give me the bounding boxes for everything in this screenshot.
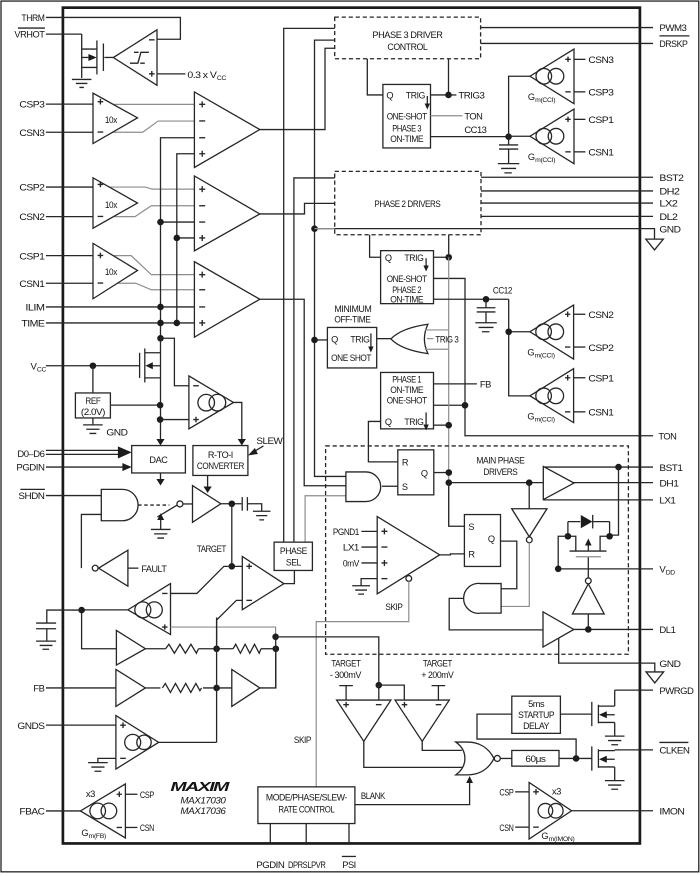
- junction VDD: [555, 566, 562, 573]
- wire THRM to comparator inverting input: [46, 17, 181, 39]
- node TRIG1: [445, 422, 452, 429]
- pin SHDN (active low): [18, 489, 45, 502]
- junction target node: [228, 500, 235, 507]
- wire CSP1: [46, 255, 93, 257]
- pin CLKEN (active low): [659, 742, 690, 756]
- box MAIN PHASE DRIVERS (dashed): [326, 446, 629, 654]
- comparator CMP4 target/feedback: [242, 556, 284, 609]
- pin LX2: [659, 199, 677, 210]
- svg-text:DAC: DAC: [149, 455, 168, 465]
- IC boundary box: [63, 8, 640, 844]
- inverter U9 FAULT (pointing left): [92, 550, 128, 586]
- svg-text:CSP1: CSP1: [19, 251, 44, 262]
- svg-text:m(CCI): m(CCI): [535, 416, 555, 423]
- svg-text:TRIG3: TRIG3: [458, 91, 484, 102]
- wire R-TO-I output arrow to buffer: [207, 475, 209, 488]
- comparator CMP7 OVP (TARGET +200mV): [395, 700, 449, 741]
- svg-text:TON: TON: [464, 112, 483, 123]
- junction DH1 at inverter tap: [526, 479, 533, 486]
- junction Q3 right: [606, 533, 613, 540]
- node TRIG2: [445, 254, 452, 261]
- svg-text:OFF-TIME: OFF-TIME: [334, 315, 370, 325]
- wire phase usage (gray) from AND input to phase selector: [305, 496, 346, 542]
- op-amp B3 buffer: [232, 669, 260, 706]
- bus arrowhead into DAC: [118, 446, 132, 458]
- one-shot U7 PHASE 1 ON-TIME: [381, 372, 434, 430]
- node SLEW input: [248, 436, 284, 456]
- wire PWM3 from phase3 driver control: [481, 27, 653, 29]
- svg-text:ON-TIME: ON-TIME: [390, 134, 423, 144]
- wire FB sense to right comparator +: [379, 685, 405, 700]
- pin DL2: [659, 212, 677, 223]
- wire ILIM to comparator3 and bus A: [46, 306, 195, 308]
- node BLANK: [355, 776, 473, 805]
- wire VRHOT to pMOS drain: [46, 33, 82, 35]
- wire target node diagonal to gm - input: [171, 566, 232, 593]
- comparator CMP1 phase 1 on-time trigger: [194, 262, 259, 338]
- wire comp node down to buffer B1: [82, 610, 117, 649]
- junction 60us out: [573, 755, 580, 762]
- svg-text:Q: Q: [385, 253, 392, 263]
- reference T-bar TARGET -300mV: [330, 659, 362, 700]
- svg-text:SKIP: SKIP: [385, 602, 402, 613]
- node CSN (fbac): [125, 823, 154, 834]
- wire SHDN to AND gate: [46, 495, 101, 497]
- node FAULT: [128, 564, 167, 575]
- wire CSN2 passthrough jog to comparator2 -: [93, 206, 194, 217]
- wire one-shot2 Q to phase2 drivers box: [370, 235, 381, 258]
- wire default-position arrow from ground: [151, 513, 171, 538]
- node CSP (imon): [499, 788, 529, 799]
- svg-text:GNDS: GNDS: [17, 721, 44, 732]
- comparator CMP2 phase 2 on-time trigger: [194, 176, 259, 251]
- pin GND (main): [659, 659, 681, 670]
- svg-text:x3: x3: [86, 789, 95, 800]
- svg-text:CLKEN: CLKEN: [659, 746, 690, 757]
- svg-text:10x: 10x: [105, 267, 118, 277]
- one-shot U5 minimum off-time: [327, 327, 376, 368]
- svg-text:DL1: DL1: [659, 625, 675, 636]
- transistor Q2 internal switch (VCC gate): [140, 348, 161, 382]
- wire DRSKP from phase3 driver control: [481, 42, 653, 44]
- wire inverter bubble to and2 input2: [501, 543, 529, 607]
- svg-text:CSN1: CSN1: [588, 408, 613, 419]
- ground on GM3 - input: [88, 758, 116, 771]
- transistor Q5 CLKEN open drain: [592, 746, 625, 789]
- node CSP2 input: [574, 343, 614, 354]
- junction REF node: [157, 402, 164, 409]
- svg-text:CSN3: CSN3: [588, 55, 613, 66]
- wire LX1: [543, 499, 653, 501]
- svg-text:CSN2: CSN2: [19, 212, 44, 223]
- wire GNDS vertical J1-J2: [216, 617, 218, 742]
- svg-text:CSP2: CSP2: [19, 183, 44, 194]
- op-amp U1 thermal comparator with hysteresis: [113, 30, 157, 86]
- svg-text:PSI: PSI: [342, 860, 356, 871]
- svg-text:TARGET: TARGET: [423, 659, 453, 669]
- capacitor CC13 to ground: [498, 133, 519, 173]
- svg-text:CSP1: CSP1: [588, 115, 613, 126]
- svg-text:LX1: LX1: [659, 496, 675, 507]
- junction Q trigger: [446, 469, 453, 476]
- capacitor CC12 to ground: [475, 296, 497, 332]
- svg-text:CC: CC: [217, 75, 227, 82]
- svg-text:10x: 10x: [105, 200, 118, 210]
- wire TRIG2 stub: [433, 235, 448, 258]
- wire CLKEN: [615, 749, 653, 751]
- svg-text:PWRGD: PWRGD: [659, 686, 694, 697]
- pin GND (phase2): [659, 224, 681, 235]
- converter R-TO-I box: [193, 446, 248, 476]
- svg-text:CSN: CSN: [499, 823, 513, 834]
- wire one-shot3 Q to control box: [367, 59, 383, 95]
- svg-text:CSN1: CSN1: [588, 148, 613, 159]
- wire TIME/ILIM bus down through switch to DAC: [160, 338, 162, 441]
- op-amp GM4 Gm(IMON) x3: [529, 782, 574, 843]
- wire SKIP from bubble down and left: [316, 581, 409, 787]
- svg-text:FBAC: FBAC: [19, 807, 45, 818]
- svg-text:LX2: LX2: [659, 199, 677, 210]
- junction min-off Q: [311, 337, 318, 344]
- svg-text:SLEW: SLEW: [256, 436, 283, 447]
- svg-text:Q: Q: [385, 417, 392, 427]
- node 0mV input: [343, 559, 377, 570]
- driver AMP DH1 high side: [543, 466, 574, 499]
- svg-text:TRIG: TRIG: [404, 253, 423, 263]
- wire B2 output to resistor R3: [145, 687, 160, 689]
- svg-text:BLANK: BLANK: [361, 791, 386, 802]
- bubble skip output on CMP5: [406, 576, 412, 582]
- svg-text:ONE SHOT: ONE SHOT: [331, 353, 372, 363]
- wire IMON: [572, 810, 653, 812]
- wire CMP5 output to FF2 R: [440, 554, 465, 555]
- node CSP (fbac): [125, 790, 154, 801]
- svg-text:MAXIM: MAXIM: [170, 779, 231, 794]
- svg-text:PHASE 3: PHASE 3: [392, 124, 421, 134]
- pin TIME: [21, 319, 44, 330]
- svg-text:Q: Q: [386, 90, 393, 100]
- pin CSP3: [19, 100, 44, 111]
- wire node N vertical: [275, 637, 277, 688]
- svg-text:MINIMUM: MINIMUM: [334, 304, 371, 314]
- wire VCC down to REF box: [92, 366, 94, 393]
- wire BST1: [543, 466, 653, 468]
- svg-text:DH1: DH1: [659, 479, 678, 490]
- wire R1 to junction: [199, 648, 234, 650]
- svg-text:TRIG: TRIG: [350, 335, 369, 345]
- ground triangle GND (main): [646, 672, 664, 683]
- comparator CMP3 phase 3 on-time trigger: [194, 92, 259, 168]
- node CSN2 input: [574, 310, 614, 321]
- svg-text:G: G: [81, 828, 88, 838]
- wire and2 output to DL1 driver: [449, 598, 543, 630]
- svg-text:SKIP: SKIP: [294, 735, 311, 746]
- svg-text:m(CCI): m(CCI): [535, 157, 555, 164]
- junction node N upper: [272, 634, 279, 641]
- wire FF2 Q wrap to and2 input1: [501, 541, 517, 589]
- svg-text:RATE CONTROL: RATE CONTROL: [278, 805, 334, 815]
- pin CSN2: [19, 212, 44, 223]
- wire PGDIN into DAC: [46, 466, 124, 468]
- svg-text:m(CCI): m(CCI): [535, 353, 555, 360]
- pin CSN3: [19, 128, 44, 139]
- wire CSN1: [46, 282, 93, 284]
- svg-text:CC13: CC13: [464, 125, 486, 136]
- wire VDD row: [558, 568, 653, 570]
- svg-text:PHASE 2 DRIVERS: PHASE 2 DRIVERS: [374, 199, 440, 209]
- svg-text:R: R: [402, 457, 409, 467]
- svg-text:m(FB): m(FB): [89, 833, 106, 840]
- svg-text:G: G: [528, 92, 535, 102]
- pin PGDIN (left): [16, 463, 45, 474]
- svg-text:S: S: [402, 482, 408, 492]
- pin VCC: [30, 361, 46, 373]
- svg-text:GND: GND: [659, 224, 681, 235]
- node CSP3 input: [574, 88, 614, 99]
- wire R3 to J2: [203, 687, 232, 689]
- svg-text:CSP: CSP: [499, 788, 513, 799]
- svg-text:PWM3: PWM3: [659, 23, 686, 34]
- junction DL1 row: [585, 626, 592, 633]
- transistor Q3 bootstrap pMOS with body diode: [568, 515, 610, 557]
- wire buffer output to target node: [221, 503, 242, 505]
- wire FAULT inverter output up to AND input: [81, 514, 101, 568]
- svg-text:PGND1: PGND1: [333, 527, 359, 538]
- svg-text:G: G: [541, 831, 548, 841]
- node TRIG3: [445, 91, 484, 102]
- svg-text:MAX17030: MAX17030: [180, 795, 226, 805]
- pin ILIM: [25, 303, 45, 314]
- svg-text:TARGET: TARGET: [197, 544, 227, 554]
- resistor R1: [166, 644, 199, 653]
- svg-text:CC12: CC12: [493, 286, 512, 297]
- svg-text:- 300mV: - 300mV: [330, 670, 362, 680]
- node CC13: [431, 125, 509, 137]
- wire AND output dashed to switch: [138, 504, 169, 506]
- svg-text:PHASE 2: PHASE 2: [392, 285, 421, 295]
- junction Q DH1 row: [446, 479, 453, 486]
- ground GND under REF: [83, 418, 128, 439]
- inverter U13 zx detect (pointing up): [572, 557, 604, 630]
- resistor R2: [233, 644, 261, 653]
- wire comparator CMP3 output to phase3 driver control: [260, 48, 335, 129]
- wire REF output to bus node: [110, 404, 160, 406]
- op-amp Gm(CCI) phase3 upper (CSN3/CSP3): [528, 49, 574, 104]
- pin CSP1: [19, 251, 44, 262]
- svg-text:G: G: [527, 411, 534, 421]
- node CSN1 input: [574, 148, 614, 159]
- wire OR bottom input to trigger chain: [425, 348, 449, 350]
- wire FF2 S feed from trigger chain: [449, 483, 465, 527]
- junction FB sense at target comparators: [376, 682, 383, 689]
- pin PSI (active low): [342, 856, 356, 871]
- svg-text:PHASE: PHASE: [280, 546, 307, 556]
- wire comparator CMP2 output to phase2 drivers: [260, 203, 335, 214]
- svg-text:BST1: BST1: [659, 463, 682, 474]
- wire GM2 + input to divider node: [171, 627, 276, 637]
- driver AMP DL1 low side: [543, 612, 574, 647]
- svg-text:TRIG: TRIG: [406, 90, 425, 100]
- wire DL2: [481, 215, 653, 217]
- svg-text:DRIVERS: DRIVERS: [483, 467, 517, 477]
- svg-text:DPRSLPVR: DPRSLPVR: [288, 860, 326, 871]
- op-amp GM5 Gm(FB) x3 (pointing left): [80, 784, 125, 840]
- svg-text:0.3 x V: 0.3 x V: [187, 70, 217, 81]
- wire DH2: [481, 190, 653, 192]
- junction VCC at REF: [90, 362, 97, 369]
- wire comparator CMP1 output down to main phase AND gate: [260, 299, 346, 486]
- wire TRIG1 stub: [434, 424, 449, 426]
- wire CSP2: [46, 186, 93, 188]
- wire GM3 output to J-vertical: [159, 741, 217, 743]
- node PGND1 input: [333, 527, 377, 538]
- svg-text:VRHOT: VRHOT: [14, 30, 45, 41]
- op-amp Gm(CCI) phase2 upper (CSN2/CSP2): [527, 305, 573, 360]
- svg-text:ONE-SHOT: ONE-SHOT: [387, 112, 428, 122]
- wire CSN3 passthrough jog to comparator1 -: [93, 121, 194, 132]
- wire AND output to FF1 S: [382, 485, 398, 487]
- svg-text:S: S: [468, 522, 474, 532]
- pin THRM: [21, 13, 44, 24]
- wire CSN2: [46, 216, 93, 218]
- op-amp GM1 slew current source: [189, 376, 234, 429]
- pin IMON: [659, 806, 685, 817]
- svg-text:DH2: DH2: [659, 187, 679, 198]
- reference T-bar TARGET +200mV: [421, 659, 454, 700]
- wire R2 to node N: [261, 648, 276, 650]
- wire DAC output arrow to switch: [160, 473, 162, 480]
- svg-text:R-TO-I: R-TO-I: [208, 450, 233, 460]
- svg-text:REF: REF: [85, 396, 101, 406]
- node CSP1 input (phase2 pair): [574, 374, 614, 385]
- wire CMP4 output to PHASE SEL: [284, 570, 295, 583]
- wire PGDIN bottom: [269, 824, 271, 844]
- pin DH2: [659, 187, 679, 198]
- svg-text:LX1: LX1: [343, 543, 359, 554]
- junction comp node: [78, 607, 85, 614]
- op-amp B1 buffer: [116, 630, 145, 665]
- wire 60us output to CLKEN gate: [559, 757, 592, 759]
- wire phase1 Q to main flip-flop R: [368, 421, 397, 461]
- svg-text:SEL: SEL: [286, 558, 301, 568]
- comparator CMP6 UVP (TARGET -300mV): [337, 700, 391, 741]
- pin DRSKP (active low): [659, 36, 689, 50]
- inverter U11 zero-cross sense (pointing down): [512, 483, 547, 543]
- flip-flop FF1 R/S main: [398, 450, 434, 495]
- wire CSN3: [46, 131, 93, 133]
- wire DRSKP distribution vertical: [315, 40, 346, 476]
- wire D0-D6 bus double line: [46, 450, 119, 454]
- op-amp Gm(CCI) phase2 lower (CSP1/CSN1): [527, 369, 573, 424]
- capacitor target filter: [242, 497, 270, 520]
- svg-text:G: G: [527, 348, 534, 358]
- wire GM2 output to external comp pin node: [82, 609, 128, 611]
- svg-text:Q: Q: [421, 469, 428, 479]
- svg-text:R: R: [468, 550, 475, 560]
- op-amp CSA3 10x current sense amp phase 3: [93, 93, 138, 143]
- junction DRSKP/GND row: [311, 225, 318, 232]
- node CSN3 input: [574, 55, 614, 66]
- switch SW1 target enable: [157, 501, 183, 517]
- svg-text:CSN1: CSN1: [19, 279, 44, 290]
- wire node N to target comparators: [276, 637, 379, 685]
- op-amp Gm(CCI) phase3 lower (CSP1/CSN1): [528, 109, 574, 164]
- svg-text:D0–D6: D0–D6: [17, 449, 44, 460]
- junction Gm phase2 upper apex: [505, 328, 512, 335]
- svg-text:ILIM: ILIM: [25, 303, 45, 314]
- box PHASE 2 DRIVERS (dashed): [335, 171, 481, 234]
- svg-text:CC: CC: [37, 367, 47, 374]
- svg-text:THRM: THRM: [21, 13, 44, 24]
- svg-text:m(CCI): m(CCI): [535, 97, 555, 104]
- op-amp CSA2 10x current sense amp phase 2: [93, 178, 138, 228]
- transistor Q1 VRHOT open-drain pMOS: [82, 34, 114, 78]
- and-gate U10 main on-time set: [346, 472, 381, 502]
- node CSP1 input: [574, 115, 614, 126]
- wire FB sense stub into left comparator -: [378, 685, 380, 700]
- svg-text:DRSKP: DRSKP: [659, 39, 687, 50]
- pin VDD: [659, 565, 675, 577]
- wire TRIG3 to control box: [431, 59, 449, 95]
- svg-text:PHASE 3 DRIVER: PHASE 3 DRIVER: [372, 30, 443, 40]
- ground under Q1: [72, 79, 92, 87]
- pin CSP2: [19, 183, 44, 194]
- svg-text:CSN2: CSN2: [588, 310, 613, 321]
- box PHASE 3 DRIVER CONTROL (dashed): [335, 17, 481, 59]
- junction divider J1: [213, 645, 220, 652]
- comparator CMP5 current balance PWM: [377, 517, 440, 594]
- wire GND row gray segment into phase2 box: [315, 228, 335, 230]
- wire bus elbow to gm - input: [161, 338, 189, 386]
- wire OR top input to trigger chain: [425, 329, 449, 331]
- wire CSP1 passthrough jog to comparator3 +: [93, 256, 194, 275]
- svg-text:DELAY: DELAY: [523, 721, 549, 731]
- svg-text:FB: FB: [33, 684, 44, 695]
- pin D0-D6: [17, 449, 44, 460]
- wire PSI: [348, 824, 350, 844]
- svg-text:DD: DD: [666, 570, 676, 577]
- and-gate U8 shdn enable: [101, 489, 138, 520]
- ground on CMP5 4th input: [352, 579, 377, 595]
- wire 5ms output to PWRGD gate: [560, 713, 591, 715]
- pin LX1: [659, 496, 675, 507]
- delay box 60us: [512, 750, 559, 766]
- svg-text:GND: GND: [106, 427, 128, 438]
- label MAIN PHASE DRIVERS: [476, 455, 524, 477]
- wire CSN1 passthrough jog to comparator3 -: [93, 283, 194, 290]
- wire target node down to target comparator +: [232, 504, 243, 567]
- transistor Q4 PWRGD open drain: [592, 690, 625, 745]
- junction gm + node: [157, 416, 164, 423]
- op-amp GM3 GNDS sense: [116, 716, 159, 770]
- wire BST1 from driver top corner (drawn under pin wire): [610, 467, 619, 535]
- one-shot U3 PHASE 3 ON-TIME: [383, 84, 431, 148]
- svg-text:Q: Q: [331, 335, 338, 345]
- box MODE/PHASE/SLEW-RATE CONTROL: [258, 787, 355, 824]
- svg-text:STARTUP: STARTUP: [518, 710, 554, 720]
- junction node N lower: [273, 645, 280, 652]
- wire FF1 Q to trigger chain: [434, 472, 449, 474]
- wire PWRGD: [615, 689, 653, 691]
- node TON stub (phase3): [431, 112, 483, 123]
- svg-text:TIME: TIME: [21, 319, 44, 330]
- svg-text:BST2: BST2: [659, 173, 683, 184]
- wire TON net from one-shots: [434, 278, 654, 435]
- svg-text:MODE/PHASE/SLEW-: MODE/PHASE/SLEW-: [266, 793, 347, 803]
- wire GNDS to gm amp +: [46, 724, 116, 726]
- svg-text:PGDIN: PGDIN: [16, 463, 45, 474]
- wire B1 output to resistor: [145, 648, 165, 650]
